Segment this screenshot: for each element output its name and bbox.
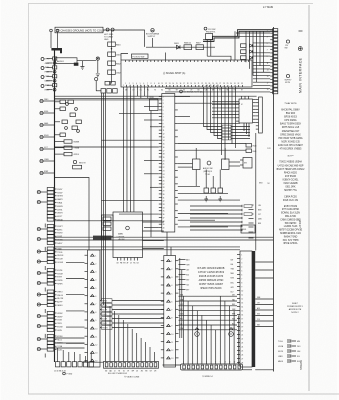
- wire: schematic right border bus: [273, 27, 275, 372]
- wire: [255, 133, 257, 251]
- wire: rows into edge cells: [165, 62, 270, 92]
- resistor bank notch: [102, 215, 114, 237]
- connector CN401: [47, 188, 63, 222]
- wire: [236, 33, 270, 56]
- IC U602: [236, 99, 253, 123]
- wire: [44, 309, 46, 313]
- wire: [44, 288, 46, 292]
- wire: [44, 354, 46, 358]
- node: U802 bottom pins: [117, 258, 140, 265]
- resistor block R610: [150, 97, 159, 111]
- wire: [55, 178, 90, 251]
- text: block label box: [132, 54, 149, 58]
- wire: [95, 81, 97, 91]
- resistor R807: [196, 43, 204, 50]
- wire: [150, 111, 152, 238]
- ground: [63, 372, 73, 375]
- diode array D810-D812: [250, 44, 253, 59]
- node: margin cap: [285, 74, 293, 84]
- resistor R841: [74, 63, 79, 66]
- ground: [37, 271, 47, 284]
- resistor R806: [184, 43, 192, 50]
- wire: [137, 90, 147, 98]
- capacitor C806: [206, 34, 213, 57]
- wire: long horizontal pair: [55, 95, 257, 97]
- wire: bus to micro: [124, 90, 134, 212]
- text: note under block: [180, 90, 203, 94]
- wire: right mid rows: [190, 205, 242, 231]
- wire: [180, 258, 182, 338]
- connector CND01: [181, 364, 243, 370]
- connector CN102 edge cells: [267, 29, 278, 94]
- wire: U601 left pin wires: [55, 100, 159, 228]
- jack J602: [229, 328, 234, 337]
- wire: [111, 31, 113, 84]
- node: U801 bottom pins right: [203, 85, 219, 90]
- text: service label: [93, 236, 112, 241]
- ground: [37, 250, 47, 263]
- capacitor C611: [211, 188, 216, 193]
- wire: [82, 361, 104, 363]
- resistor R802: [108, 61, 121, 66]
- ground: [37, 337, 47, 350]
- resistor R630: [244, 205, 252, 208]
- text: 12V SW label: [204, 27, 216, 33]
- wire: [44, 334, 46, 338]
- text: stub labels: [257, 297, 260, 327]
- node: U801 top pin ticks: [126, 60, 249, 62]
- node junction: [111, 48, 112, 49]
- node: audio sw label: [203, 161, 213, 176]
- ground: [37, 190, 47, 203]
- capacitor C801: [108, 52, 121, 57]
- IC U604: [240, 158, 252, 169]
- resistor R801: [108, 42, 121, 47]
- wire: [152, 38, 154, 47]
- connector CN406: [47, 312, 63, 332]
- wire: B pin stubs: [179, 258, 191, 291]
- wire: C to border stubs: [255, 262, 273, 327]
- text: pin notes: [267, 148, 271, 185]
- resistor R631: [244, 213, 252, 216]
- IC U802 main conv: [113, 212, 143, 258]
- text: sub power note: [287, 303, 304, 314]
- capacitor C640: [0, 0, 1, 1]
- capacitor C610: [204, 188, 209, 193]
- capacitor group left: [55, 100, 82, 137]
- audio module A801: [56, 58, 78, 64]
- node: margin datum: [298, 47, 302, 51]
- wire: [243, 369, 253, 371]
- wire: strip to A rows: [66, 262, 85, 343]
- resistor chain on rail: [45, 57, 57, 92]
- wire: left vertical rail: [54, 51, 56, 363]
- transistor Q602: [222, 159, 230, 170]
- text: C pin stub labels: [231, 259, 235, 293]
- switch row S801-S807: [54, 352, 93, 373]
- ground: [37, 227, 47, 240]
- wire: [167, 232, 171, 256]
- transistor Q601: [193, 159, 201, 170]
- jack J601: [195, 328, 200, 337]
- wire: [44, 224, 46, 228]
- wire: [212, 96, 249, 118]
- connector CN403: [47, 247, 64, 264]
- ground: [80, 61, 84, 70]
- connector CNA01: [85, 250, 101, 367]
- wire: comb to bottom connector D: [184, 296, 239, 364]
- wire: B-C harness rows: [179, 294, 238, 331]
- node: line out: [96, 57, 100, 77]
- wire: [207, 56, 231, 60]
- wire: hot bar: [51, 48, 62, 53]
- text: notes column: [277, 102, 306, 245]
- resistor pair: [105, 81, 115, 85]
- wire: U802 right pins: [143, 222, 164, 249]
- text: pulse labels: [278, 340, 301, 363]
- ground: [37, 314, 47, 327]
- capacitor C802: [108, 70, 121, 75]
- wire: comb to bottom connector E: [106, 302, 155, 362]
- wire: [163, 364, 181, 366]
- ground: [37, 293, 47, 306]
- component box X601: [241, 225, 255, 233]
- connector CNC01: [237, 251, 255, 367]
- wire: [255, 369, 273, 371]
- resistor R640/R641: [246, 144, 257, 153]
- connector CN402: [47, 225, 63, 245]
- wire: A-B labelled rows: [100, 299, 164, 330]
- node: reg 9V: [73, 160, 87, 169]
- wire: left bus pair: [102, 93, 106, 310]
- wire: [77, 60, 96, 62]
- text: D pin numbers: [183, 362, 240, 364]
- node: hot ground net: [104, 28, 114, 41]
- node: U801 pin row: [125, 83, 243, 91]
- ground: [204, 196, 208, 202]
- wire: top bus: [103, 30, 145, 47]
- node: boost supply: [146, 29, 160, 38]
- wire: [253, 99, 256, 122]
- node cluster near border: [249, 183, 264, 239]
- IC U603 strip: [256, 97, 262, 133]
- node: 12V margin: [285, 40, 290, 50]
- connector CN404: [47, 269, 63, 286]
- title note box: [55, 27, 104, 33]
- wire: [50, 29, 59, 48]
- ground: [218, 196, 222, 202]
- wire: [222, 87, 236, 160]
- connector CN407: [47, 335, 63, 352]
- op-amp U801 signal shift block: [121, 53, 252, 88]
- wire rows to CN102: [204, 90, 251, 138]
- capacitor group C820: [96, 89, 117, 93]
- wire: [44, 266, 46, 270]
- text: parts note paragraph: [198, 268, 225, 290]
- capacitor C612: [218, 188, 223, 193]
- connector CNB01: [161, 256, 179, 368]
- IC U601: [159, 94, 178, 233]
- resistor group left mid: [55, 140, 81, 156]
- wire: [146, 46, 215, 48]
- text: margin dash: [299, 30, 303, 32]
- wire: mid bus rows: [55, 237, 274, 250]
- diode D803: [174, 43, 180, 49]
- node: U801 bottom pins 1-8: [123, 85, 148, 90]
- node symbols column: [41, 58, 44, 88]
- wire: [55, 338, 85, 356]
- connector CNE01: [104, 362, 159, 376]
- node sym: [95, 77, 98, 80]
- resistor row R820-R824: [222, 125, 231, 140]
- node: supply taps: [40, 99, 55, 175]
- wire: 12V switched bus: [203, 30, 273, 42]
- wire: [234, 31, 236, 60]
- wire: [246, 31, 264, 82]
- wire: [44, 247, 46, 251]
- connector CN405: [47, 290, 64, 307]
- wire: [178, 148, 240, 188]
- wire: U601 right pin wires: [178, 97, 246, 227]
- resistor array R810-R812: [241, 44, 247, 60]
